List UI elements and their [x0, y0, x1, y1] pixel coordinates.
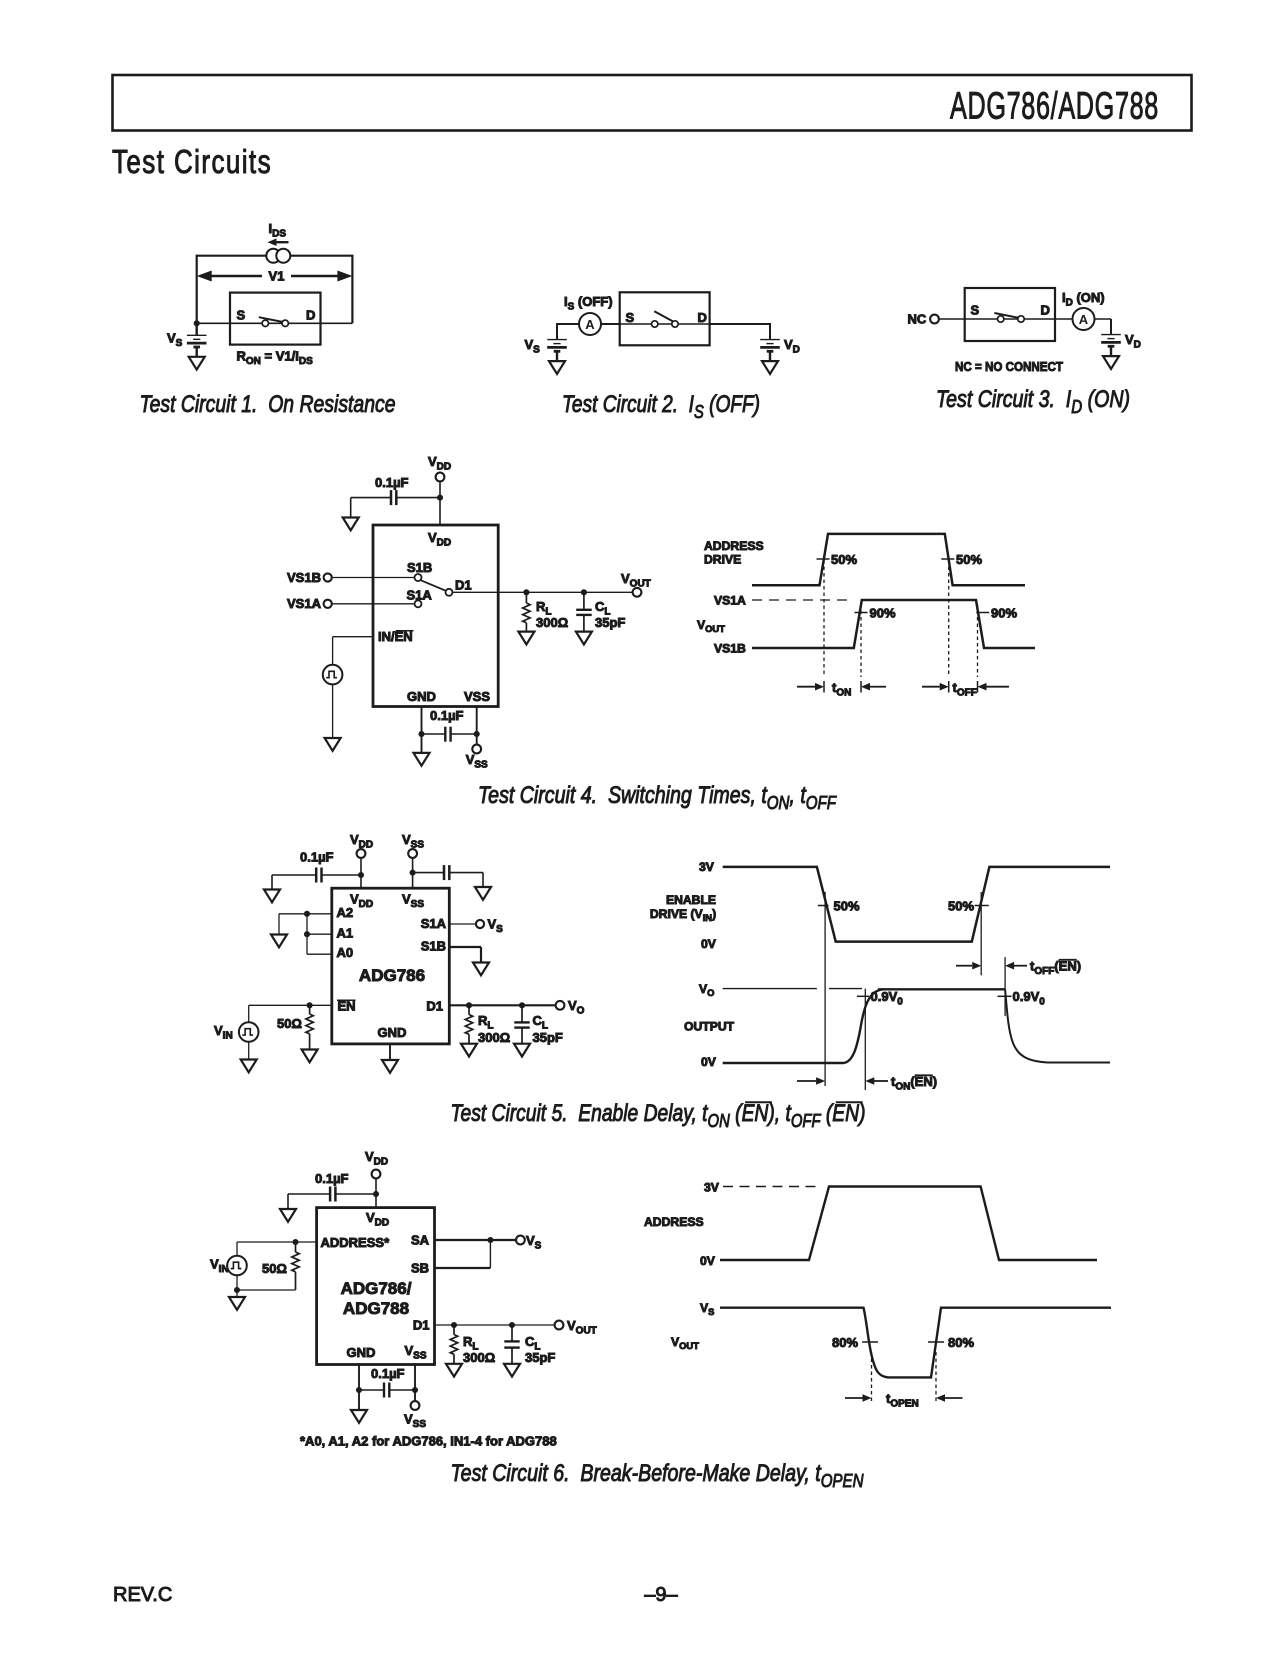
svg-text:ID (ON): ID (ON)	[1062, 290, 1105, 308]
svg-text:0.1µF: 0.1µF	[371, 1366, 405, 1381]
TC2 wire box to VD	[710, 323, 770, 325]
svg-text:50Ω: 50Ω	[277, 1016, 302, 1031]
svg-text:50%: 50%	[831, 552, 857, 567]
svg-text:80%: 80%	[832, 1335, 858, 1350]
TC3 ammeter A	[1073, 308, 1095, 330]
TC6t output waveform	[720, 1308, 1111, 1378]
TC4 ground GND pin	[414, 753, 430, 766]
TC5t VO level line	[723, 988, 817, 990]
TC5t vertical line falling 50%	[824, 892, 826, 1086]
TC4 wire VS1B	[332, 577, 415, 579]
svg-text:D1: D1	[455, 578, 472, 593]
TC5 terminal VO	[556, 1001, 565, 1010]
TC4 pulse source VIN	[323, 665, 343, 685]
TC6 ground VIN	[229, 1297, 245, 1310]
svg-text:tOFF(EN): tOFF(EN)	[1030, 959, 1081, 977]
TC4t dashed line tOFF end	[977, 604, 979, 677]
svg-text:D: D	[698, 310, 707, 325]
TC1 wire S-D through switch	[197, 322, 353, 324]
svg-text:NC: NC	[908, 312, 927, 327]
TC6t tOPEN arrow left	[845, 1394, 872, 1402]
TC5t 0.9 tick left	[857, 995, 869, 997]
svg-text:D: D	[1041, 303, 1050, 318]
svg-text:Test Circuit 6. Break-Before-: Test Circuit 6. Break-Before-Make Delay,…	[451, 1460, 865, 1491]
TC6 wire SB	[435, 1240, 491, 1268]
svg-text:A: A	[585, 317, 595, 332]
TC5t 50% tick right	[975, 905, 989, 907]
svg-text:VS: VS	[488, 917, 504, 935]
TC6 terminal VS	[516, 1236, 525, 1245]
TC1 wire left vertical	[196, 255, 198, 324]
TC5t 0.9 tick right	[998, 995, 1012, 997]
svg-text:ADG786/ADG788: ADG786/ADG788	[950, 86, 1159, 128]
svg-text:ADDRESS*: ADDRESS*	[321, 1235, 391, 1250]
svg-text:50%: 50%	[956, 552, 982, 567]
TC2 wire VS stem	[556, 323, 558, 340]
svg-text:GND: GND	[378, 1025, 407, 1040]
TC4 wire GND down	[421, 707, 423, 753]
svg-text:VS: VS	[167, 331, 183, 349]
TC4 ground pulse	[325, 738, 341, 751]
TC3 switch contact D	[1018, 316, 1024, 322]
TC5t 50% tick left	[818, 905, 829, 907]
svg-text:VIN: VIN	[210, 1257, 229, 1275]
TC4 switch contact D1	[446, 589, 453, 596]
TC5 caption	[451, 1100, 866, 1131]
TC6 wire D1 output	[435, 1324, 555, 1326]
svg-text:VDD: VDD	[428, 530, 451, 548]
svg-text:D1: D1	[413, 1318, 430, 1333]
TC3 ground	[1103, 356, 1119, 369]
TC5 ground A2	[271, 935, 287, 948]
TC4 junction VDD	[437, 495, 443, 501]
TC4t tON arrow left	[797, 683, 824, 691]
TC6 junction RL	[451, 1322, 457, 1328]
svg-text:V1: V1	[269, 269, 285, 284]
TC5t output high line	[878, 988, 1005, 990]
TC5 wire VDD vertical	[360, 858, 362, 888]
TC5 pulse source VIN	[239, 1022, 259, 1042]
svg-text:S: S	[971, 303, 980, 318]
TC5t tON arrow left	[797, 1077, 825, 1085]
svg-text:0.1µF: 0.1µF	[300, 850, 334, 865]
TC5 ground VIN	[241, 1060, 257, 1073]
TC5t vertical line rising 50%	[980, 892, 982, 975]
svg-text:VDD: VDD	[350, 832, 373, 850]
TC6t 3V dashed level	[723, 1186, 820, 1188]
svg-text:Test Circuit 5. Enable Delay,: Test Circuit 5. Enable Delay, tON (EN), …	[451, 1100, 866, 1131]
TC5 terminal VDD	[357, 849, 366, 858]
svg-text:VIN: VIN	[214, 1023, 233, 1041]
svg-text:80%: 80%	[948, 1335, 974, 1350]
svg-text:S1B: S1B	[407, 560, 432, 575]
TC2 wire VS to ammeter to switch box	[557, 323, 620, 325]
TC1 switch contact S	[262, 320, 268, 326]
svg-text:tOFF: tOFF	[953, 680, 977, 698]
svg-text:A0: A0	[337, 945, 354, 960]
TC5 resistor 50ohm	[306, 1005, 313, 1049]
TC4 wire D1 output	[453, 591, 634, 593]
svg-text:VS1B: VS1B	[287, 570, 321, 585]
TC1 current direction arrow	[277, 241, 289, 243]
TC5 wire A2	[279, 914, 332, 935]
TC5 ground S1B	[473, 963, 489, 976]
svg-text:A: A	[1079, 312, 1089, 327]
TC6 ground RL	[446, 1364, 462, 1377]
TC6 junction VSS	[412, 1387, 418, 1393]
svg-text:VDD: VDD	[350, 892, 373, 910]
TC2 switch lever open	[654, 311, 672, 321]
TC5 terminal VSS	[408, 849, 417, 858]
TC6 wire VIN top	[236, 1242, 238, 1256]
TC5 junction CL	[519, 1002, 525, 1008]
TC4t 50% tick right	[941, 558, 954, 560]
svg-text:VSS: VSS	[464, 689, 490, 704]
svg-text:Test Circuits: Test Circuits	[112, 143, 272, 180]
svg-text:VS1A: VS1A	[287, 596, 322, 611]
TC5 wire EN input	[249, 1004, 332, 1006]
TC1 switch lever	[259, 317, 283, 322]
TC4 switch lever S1B-D1	[421, 580, 447, 591]
TC5t tOFF arrow left	[956, 962, 981, 970]
TC4 capacitor C2 0.1uF	[422, 727, 477, 742]
TC3 switch contact S	[998, 316, 1004, 322]
TC5 wire address bus vertical	[306, 914, 308, 954]
TC6 terminal VOUT	[555, 1321, 564, 1330]
svg-text:S1B: S1B	[421, 939, 446, 954]
svg-text:50%: 50%	[834, 898, 860, 913]
TC6 terminal VSS	[411, 1401, 420, 1410]
TC6 wire address input	[237, 1241, 317, 1243]
TC4 wire EN input	[333, 637, 373, 665]
TC4t address waveform	[752, 534, 1025, 585]
TC1 current source IDS	[266, 249, 290, 263]
TC6 junction VIN bottom	[234, 1287, 240, 1293]
TC5 junction VSS	[410, 870, 416, 876]
svg-text:0.1µF: 0.1µF	[430, 708, 464, 723]
TC6 wire VDD vertical	[375, 1178, 377, 1207]
svg-text:REV.C: REV.C	[113, 1584, 172, 1606]
TC6t dashed line tOPEN start	[871, 1352, 873, 1404]
svg-text:50%: 50%	[948, 898, 974, 913]
svg-text:ENABLE: ENABLE	[666, 893, 716, 907]
TC6t dashed line tOPEN end	[935, 1352, 937, 1404]
svg-text:–9–: –9–	[644, 1584, 678, 1606]
svg-text:tOPEN: tOPEN	[886, 1391, 919, 1409]
TC5t tOFF arrow right	[1005, 962, 1027, 970]
TC1 battery VS	[187, 323, 207, 357]
svg-text:ADDRESS: ADDRESS	[644, 1215, 704, 1229]
svg-text:Test Circuit 1. On Resistance: Test Circuit 1. On Resistance	[140, 391, 396, 418]
svg-text:VSS: VSS	[466, 752, 488, 770]
svg-text:0V: 0V	[701, 937, 717, 951]
TC2 wire through switch	[620, 323, 710, 325]
TC2 battery VD	[760, 340, 780, 362]
TC4 junction RL	[523, 589, 529, 595]
TC4 ground RL	[518, 632, 534, 645]
svg-text:VD: VD	[784, 337, 800, 355]
TC4t tOFF arrow right	[978, 683, 1010, 691]
svg-text:35pF: 35pF	[533, 1030, 563, 1045]
svg-text:35pF: 35pF	[595, 615, 625, 630]
TC4 device box	[373, 525, 498, 707]
svg-text:D: D	[306, 308, 315, 323]
svg-text:300Ω: 300Ω	[536, 615, 568, 630]
svg-text:VDD: VDD	[365, 1149, 388, 1167]
svg-text:A1: A1	[337, 926, 354, 941]
TC4 switch contact S1A	[415, 600, 422, 607]
svg-text:300Ω: 300Ω	[463, 1350, 495, 1365]
svg-text:35pF: 35pF	[525, 1350, 555, 1365]
svg-text:VS: VS	[525, 337, 541, 355]
svg-text:50Ω: 50Ω	[262, 1261, 287, 1276]
TC4 ground CL	[576, 632, 592, 645]
TC1 wire top left	[197, 255, 267, 257]
TC4t dashed line tON start	[823, 560, 825, 677]
TC5t output rise curve	[723, 989, 883, 1063]
header rule box	[113, 75, 1192, 131]
TC5 ground CL	[514, 1044, 530, 1057]
TC6 junction SA	[487, 1237, 493, 1243]
TC6 junction VDD	[373, 1191, 379, 1197]
TC5t enable waveform	[723, 867, 1110, 942]
TC2 switch box	[620, 292, 710, 345]
TC5t tON arrow right	[865, 1077, 888, 1085]
svg-text:DRIVE: DRIVE	[704, 553, 741, 567]
svg-text:ADG786: ADG786	[359, 966, 425, 985]
TC5 wire D1 output	[449, 1004, 556, 1006]
svg-text:tON: tON	[832, 680, 851, 698]
TC2 battery VS	[547, 340, 567, 362]
TC4 terminal VOUT	[633, 588, 642, 597]
svg-text:VSS: VSS	[402, 892, 424, 910]
TC1 wire top right	[290, 255, 353, 257]
TC5 junction A2	[304, 911, 310, 917]
svg-text:3V: 3V	[704, 1181, 720, 1195]
TC4 terminal VS1A	[324, 600, 332, 608]
svg-text:VS: VS	[700, 1301, 714, 1317]
TC6 wire VIN to resistor	[237, 1289, 296, 1291]
TC5 capacitor CL 35pF	[514, 1005, 529, 1043]
svg-text:0.1µF: 0.1µF	[315, 1171, 349, 1186]
svg-text:ADDRESS: ADDRESS	[704, 539, 764, 553]
svg-text:0.1µF: 0.1µF	[375, 475, 409, 490]
TC2 ground right	[762, 361, 778, 374]
TC6 junction GND	[356, 1387, 362, 1393]
TC6 capacitor C1 0.1uF	[288, 1187, 376, 1210]
svg-text:S: S	[237, 308, 246, 323]
TC5 junction A1	[304, 931, 310, 937]
TC6 junction address	[292, 1239, 298, 1245]
TC3 wire box to ammeter	[1055, 318, 1111, 320]
TC5 junction VDD	[358, 872, 364, 878]
TC6t 80% tick left	[862, 1341, 878, 1343]
svg-text:VSS: VSS	[404, 1412, 426, 1430]
svg-text:90%: 90%	[870, 605, 896, 620]
TC4 capacitor C1 0.1uF	[351, 490, 440, 517]
svg-text:VSS: VSS	[402, 832, 424, 850]
svg-text:SA: SA	[411, 1233, 430, 1248]
svg-text:VSS: VSS	[404, 1343, 426, 1361]
TC6 pulse source VIN	[227, 1256, 247, 1276]
svg-text:RON = V1/IDS: RON = V1/IDS	[237, 349, 314, 367]
svg-text:VS: VS	[526, 1233, 542, 1251]
TC4t VS1A dashed level	[752, 599, 854, 601]
svg-text:VOUT: VOUT	[671, 1335, 699, 1351]
TC4 terminal VDD	[436, 473, 445, 482]
TC5 wire VIN bottom	[248, 1042, 250, 1060]
TC5 resistor RL 300	[465, 1005, 472, 1043]
TC4 pin label IN/EN with overline	[378, 629, 414, 644]
TC2 switch contact S	[652, 321, 658, 327]
TC4t dashed line tOFF start	[948, 560, 950, 677]
TC2 ground left	[549, 361, 565, 374]
TC4 wire VDD vertical	[439, 481, 441, 525]
svg-text:GND: GND	[407, 689, 436, 704]
TC3 wire VD stem	[1110, 319, 1112, 335]
TC6 junction CL	[509, 1322, 515, 1328]
TC5 wire A1	[307, 933, 332, 935]
TC6 terminal VDD	[372, 1170, 381, 1179]
TC6 wire SA	[435, 1239, 516, 1241]
TC5 junction EN	[307, 1002, 313, 1008]
svg-text:IS (OFF): IS (OFF)	[564, 294, 613, 312]
TC4t output waveform	[752, 600, 1035, 648]
svg-text:IDS: IDS	[269, 221, 287, 239]
svg-text:0.9V0: 0.9V0	[1013, 989, 1046, 1007]
svg-text:VS1B: VS1B	[714, 642, 746, 656]
svg-text:Test Circuit 4. Switching Tim: Test Circuit 4. Switching Times, tON, tO…	[478, 782, 837, 813]
svg-text:VO: VO	[568, 998, 585, 1016]
TC3 battery VD	[1101, 335, 1121, 357]
TC1 ground	[189, 357, 205, 370]
TC4 junction VSS	[474, 731, 480, 737]
TC5 wire VSS vertical	[412, 858, 414, 888]
TC3 switch lever	[994, 313, 1018, 318]
svg-text:VOUT: VOUT	[697, 618, 725, 634]
TC4t tOFF arrow left	[922, 683, 949, 691]
TC5 ground C1	[264, 890, 280, 903]
TC4t 50% tick left	[817, 558, 830, 560]
TC5 ground 50ohm	[302, 1050, 318, 1063]
TC5 wire GND down	[389, 1044, 391, 1060]
TC6 wire GND down	[358, 1365, 360, 1411]
svg-text:GND: GND	[347, 1345, 376, 1360]
TC5 wire S1B	[449, 947, 481, 963]
TC5 ground C2	[475, 887, 491, 900]
TC6 ground C1	[280, 1209, 296, 1222]
TC5t vertical tick tON end	[864, 989, 866, 1090]
svg-text:RL: RL	[478, 1013, 494, 1031]
svg-text:VDD: VDD	[428, 454, 451, 472]
svg-text:VOUT: VOUT	[621, 571, 651, 589]
TC5t vertical tick tOFF end	[1004, 957, 1006, 1016]
TC1 wire right vertical	[351, 255, 353, 324]
svg-text:CL: CL	[533, 1013, 549, 1031]
TC3 terminal NC	[930, 315, 939, 324]
TC1 switch contact D	[282, 320, 288, 326]
TC6 wire VSS down	[414, 1365, 416, 1402]
TC5 ground RL	[461, 1044, 477, 1057]
svg-text:S1A: S1A	[421, 916, 447, 931]
TC6 resistor 50ohm	[292, 1242, 299, 1290]
svg-text:ADG788: ADG788	[343, 1299, 409, 1318]
TC4 terminal VS1B	[324, 573, 332, 581]
TC5 ground GND pin	[382, 1060, 398, 1073]
TC6 ground CL	[504, 1364, 520, 1377]
TC5 device box ADG786	[332, 888, 450, 1044]
svg-text:VDD: VDD	[366, 1210, 389, 1228]
TC1 node junction	[194, 320, 200, 326]
TC5 wire A0	[307, 953, 332, 955]
TC5 wire VIN top	[248, 1005, 250, 1022]
TC5t VO level dash	[829, 988, 862, 990]
TC3 switch box	[965, 288, 1055, 341]
TC4 wire VSS down	[476, 707, 478, 745]
TC6t 80% tick right	[928, 1341, 944, 1343]
TC6 device box ADG786/ADG788	[317, 1208, 435, 1365]
svg-text:VO: VO	[699, 982, 714, 998]
svg-text:D1: D1	[426, 999, 443, 1014]
TC6 wire VIN bottom	[236, 1275, 238, 1297]
TC4 switch contact S1B	[415, 574, 422, 581]
svg-text:Test Circuit 2. IS (OFF): Test Circuit 2. IS (OFF)	[562, 391, 760, 422]
svg-text:VD: VD	[1125, 332, 1141, 350]
svg-text:tON(EN): tON(EN)	[891, 1074, 937, 1092]
TC5 capacitor C1 0.1uF	[272, 868, 361, 890]
TC5t output fall curve	[1005, 989, 1110, 1062]
svg-text:*A0, A1, A2 for ADG786, IN1-4: *A0, A1, A2 for ADG786, IN1-4 for ADG788	[300, 1434, 557, 1449]
TC4t dashed line tON end	[860, 604, 862, 677]
svg-text:0V: 0V	[701, 1055, 717, 1069]
TC4t tON arrow right	[861, 683, 886, 691]
svg-text:SB: SB	[411, 1261, 429, 1276]
svg-text:NC = NO CONNECT: NC = NO CONNECT	[955, 359, 1063, 374]
svg-text:VOUT: VOUT	[567, 1318, 597, 1336]
TC4 capacitor CL 35pF	[576, 595, 592, 632]
TC5 capacitor C2 0.1uF	[413, 865, 483, 887]
TC5 wire S1A	[449, 923, 475, 925]
TC4 resistor RL 300	[523, 595, 530, 632]
TC4 wire VS1A	[332, 603, 415, 605]
TC6 capacitor CL 35pF	[504, 1325, 519, 1364]
TC6t tOPEN arrow right	[936, 1394, 963, 1402]
TC4 ground C1	[343, 518, 359, 531]
TC4t 90% tick right	[976, 612, 989, 614]
TC1 switch box	[230, 293, 321, 345]
svg-text:OUTPUT: OUTPUT	[684, 1020, 735, 1034]
TC6 ground GND pin	[351, 1410, 367, 1423]
TC4 junction GND	[418, 731, 424, 737]
svg-text:300Ω: 300Ω	[478, 1030, 510, 1045]
TC2 wire VD stem	[769, 323, 771, 340]
svg-text:A2: A2	[337, 905, 354, 920]
svg-text:S: S	[626, 310, 635, 325]
svg-text:Test Circuit 3. ID (ON): Test Circuit 3. ID (ON)	[936, 386, 1130, 417]
svg-text:90%: 90%	[991, 605, 1017, 620]
TC3 wire through switch	[965, 318, 1055, 320]
svg-text:DRIVE (VIN): DRIVE (VIN)	[650, 907, 716, 923]
TC4 wire pulse to ground	[332, 684, 334, 738]
TC6 capacitor C2 0.1uF	[359, 1383, 415, 1398]
TC5 pin label EN with overline	[337, 999, 356, 1014]
TC5 junction RL	[466, 1002, 472, 1008]
TC4t 90% tick left	[855, 612, 868, 614]
TC6t address waveform	[720, 1187, 1097, 1261]
TC3 wire NC to box	[939, 318, 965, 320]
TC4 junction CL	[581, 589, 587, 595]
TC2 switch contact D	[672, 321, 678, 327]
